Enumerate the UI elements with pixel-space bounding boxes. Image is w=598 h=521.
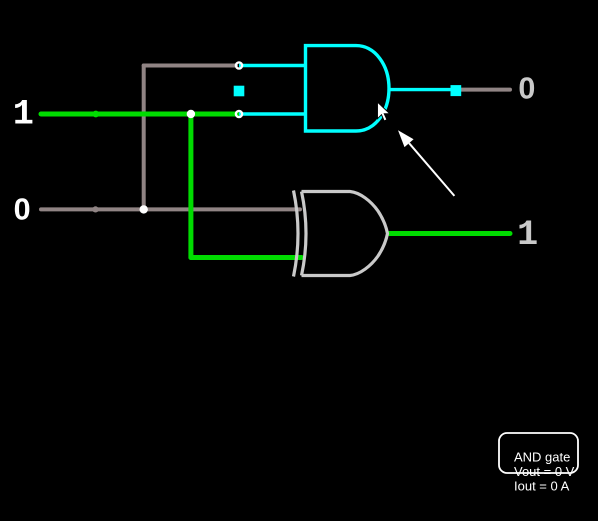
svg-text:Iout = 0 A: Iout = 0 A <box>514 479 570 494</box>
svg-text:AND gate: AND gate <box>514 450 570 465</box>
svg-text:0: 0 <box>14 192 31 226</box>
svg-text:Vout = 0 V: Vout = 0 V <box>514 464 575 479</box>
svg-text:1: 1 <box>517 215 538 255</box>
svg-text:1: 1 <box>13 95 34 135</box>
svg-text:0: 0 <box>518 72 535 106</box>
